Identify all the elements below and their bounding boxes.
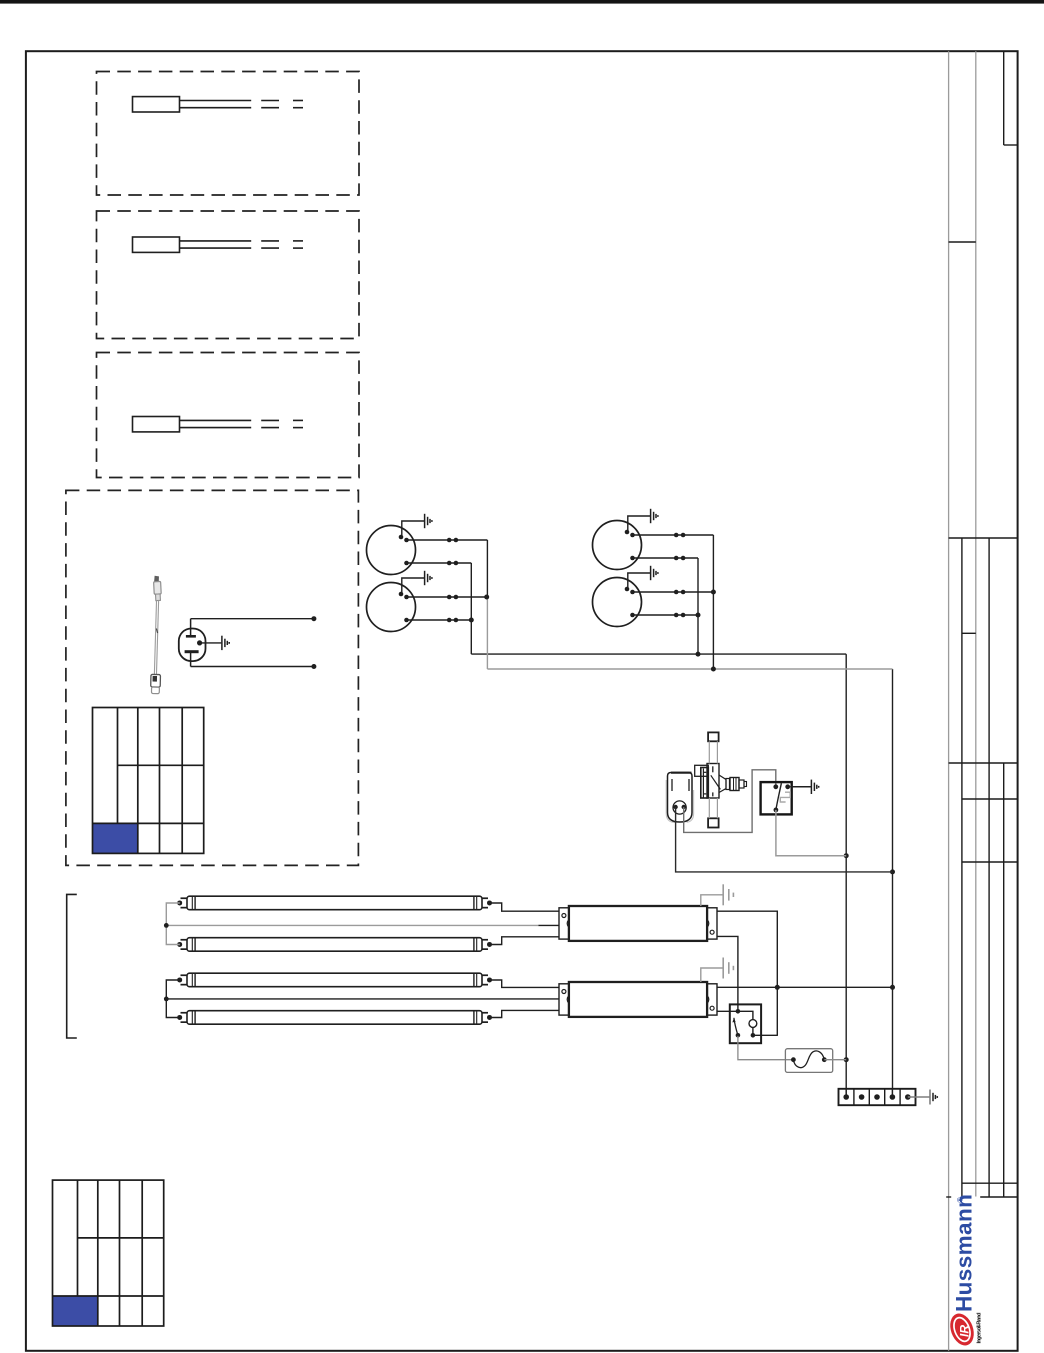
svg-text:Ingersoll-Rand: Ingersoll-Rand (977, 1312, 983, 1344)
svg-text:Hussmann: Hussmann (952, 1194, 977, 1312)
svg-text:®: ® (957, 1197, 965, 1203)
svg-text:IR: IR (958, 1325, 972, 1337)
